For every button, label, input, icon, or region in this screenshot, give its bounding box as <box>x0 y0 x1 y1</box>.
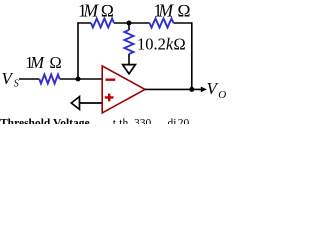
wire: left vertical of feedback loop <box>77 22 79 79</box>
svg-text:V: V <box>2 69 15 88</box>
svg-text:M: M <box>158 0 175 20</box>
op-amp U1 inverting input minus sign <box>106 78 116 80</box>
svg-text:Ω: Ω <box>101 0 114 20</box>
node C junction dot on output wire <box>189 87 194 92</box>
label 1M ohm for R2 <box>78 0 114 20</box>
wire: right vertical of feedback loop <box>191 22 193 89</box>
ground arrow at noninverting input <box>71 97 79 110</box>
wire: top feedback horizontal <box>78 22 192 24</box>
svg-text:Threshold Voltage: Threshold Voltage <box>0 118 90 125</box>
svg-text:O: O <box>218 89 226 101</box>
svg-text:S: S <box>14 79 19 90</box>
node A junction dot between feedback resistors <box>127 21 132 26</box>
wire: noninverting input to ground arrow <box>79 102 102 104</box>
wire: output of op-amp to Vo <box>145 88 202 90</box>
svg-text:Ω: Ω <box>49 53 62 72</box>
label Vs source <box>2 69 19 90</box>
resistor R2 1M ohm feedback-left zigzag <box>91 19 114 28</box>
ground arrow below R3 <box>123 65 136 74</box>
op-amp U1 triangle <box>102 66 145 113</box>
svg-text:Ω: Ω <box>177 0 190 20</box>
svg-text:M: M <box>83 0 100 20</box>
resistor R1 1M ohm input zigzag <box>39 75 59 84</box>
wire: input from Vs to inverting input <box>19 78 102 80</box>
label 10.2k ohm for R3 <box>137 34 186 53</box>
op-amp U1 noninverting input plus sign <box>105 94 114 102</box>
label 1M ohm for R4 <box>154 0 191 20</box>
label 1M ohm for R1 <box>25 53 62 72</box>
output arrowhead at Vo <box>201 87 207 93</box>
label Vo output <box>207 79 227 101</box>
svg-text:tth330di20: tth330di20 <box>113 118 190 125</box>
wire: stub from R3 to ground <box>128 54 130 64</box>
node B junction dot on inverting input wire <box>76 77 81 82</box>
caption text clipped at bottom <box>0 118 190 130</box>
resistor R3 10.2k ohm vertical zigzag <box>125 30 134 54</box>
svg-text:M: M <box>29 53 45 72</box>
resistor R4 1M ohm feedback-right zigzag <box>150 19 174 28</box>
wire: stub from node A to R3 <box>128 23 130 30</box>
svg-text:10.2kΩ: 10.2kΩ <box>137 34 186 53</box>
